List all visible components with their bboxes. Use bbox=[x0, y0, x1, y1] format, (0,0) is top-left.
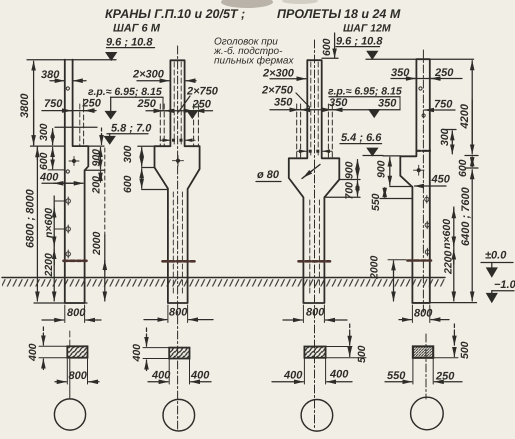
svg-text:500: 500 bbox=[459, 341, 471, 359]
dim 750 / 250 K1 bbox=[42, 98, 102, 111]
dim 380 K1 top bbox=[41, 69, 86, 81]
svg-text:6800 ; 8000: 6800 ; 8000 bbox=[25, 188, 37, 248]
dim 900 K1 bracket bbox=[91, 148, 103, 169]
rail top extension line 12m group to K4 bbox=[383, 155, 400, 157]
svg-text:800: 800 bbox=[306, 307, 325, 319]
svg-text:550: 550 bbox=[387, 370, 406, 382]
svg-text:2×750: 2×750 bbox=[186, 86, 219, 98]
title text bbox=[105, 7, 401, 67]
rail axes K2 dashed bbox=[160, 104, 198, 146]
dim 2x750 K3 leader bbox=[261, 85, 310, 108]
svg-text:2×300: 2×300 bbox=[262, 68, 295, 80]
small plate marks K4 upper bbox=[419, 87, 425, 117]
foundation section S1 bbox=[27, 327, 88, 370]
dim 300 K4 bbox=[439, 128, 456, 154]
dim 800 base K4 bbox=[399, 305, 449, 323]
svg-text:−1.0: −1.0 bbox=[494, 279, 515, 291]
svg-text:350: 350 bbox=[329, 97, 348, 109]
rung marks K1 shaft bbox=[55, 197, 70, 258]
ground line with hatching bbox=[2, 278, 445, 287]
dim 6400;7600 K4 bbox=[460, 170, 472, 301]
svg-text:250: 250 bbox=[192, 99, 212, 111]
svg-text:400: 400 bbox=[190, 370, 210, 382]
svg-text:400: 400 bbox=[283, 370, 303, 382]
dim 6800;8000 K1 bbox=[25, 147, 38, 301]
svg-text:г.р.≈ 6.95; 8.15: г.р.≈ 6.95; 8.15 bbox=[328, 86, 402, 98]
svg-text:800: 800 bbox=[67, 307, 86, 319]
svg-text:350: 350 bbox=[378, 98, 397, 110]
node cross K4 bbox=[414, 165, 425, 175]
axis centerline K3 bbox=[314, 40, 316, 430]
dim 2200 K4 bbox=[443, 249, 455, 302]
svg-text:5.8 ; 7.0: 5.8 ; 7.0 bbox=[111, 123, 152, 135]
pile circle S2 bbox=[163, 399, 195, 431]
svg-text:300: 300 bbox=[38, 123, 50, 141]
svg-text:6400 ; 7600: 6400 ; 7600 bbox=[460, 186, 472, 246]
pile circle S3 bbox=[301, 400, 333, 432]
dim 4200 K4 bbox=[459, 61, 472, 154]
dim 600 arrow at K3 top bbox=[321, 33, 338, 58]
svg-text:2200: 2200 bbox=[443, 250, 455, 275]
elevation mark 9.6 right bbox=[336, 47, 380, 59]
axis centerline K2 bbox=[177, 46, 179, 430]
dim 800 base K1 bbox=[42, 305, 101, 323]
dim 900 K3 bbox=[339, 160, 360, 180]
svg-text:380: 380 bbox=[41, 69, 60, 81]
foundation section S2 bbox=[131, 328, 190, 371]
dim 700 K3 bbox=[324, 181, 360, 200]
small plate marks K1 bbox=[66, 87, 69, 173]
dim 2x750 K2 leader bbox=[179, 86, 219, 113]
dim n x 600 K4 bbox=[441, 207, 454, 249]
elevation GR 6.95 right triangle near K2 bbox=[187, 111, 197, 118]
svg-text:750: 750 bbox=[44, 98, 63, 110]
svg-text:800: 800 bbox=[414, 308, 433, 320]
crane beam anchors K2 head bbox=[160, 139, 195, 142]
svg-text:500: 500 bbox=[356, 345, 368, 363]
column K4 outline (right edge column, 12m) bbox=[400, 59, 430, 303]
svg-text:4200: 4200 bbox=[459, 103, 471, 129]
dim 800 base K2 bbox=[144, 305, 213, 323]
svg-text:9.6 ; 10.8: 9.6 ; 10.8 bbox=[106, 37, 153, 49]
svg-text:г.р.≈ 6.95; 8.15: г.р.≈ 6.95; 8.15 bbox=[88, 86, 162, 98]
rail axes K3 dashed bbox=[297, 104, 333, 158]
dim 300 K2 bbox=[122, 145, 155, 166]
dim 600 K2 bbox=[122, 168, 168, 194]
dim 2200 K1 bbox=[43, 248, 55, 301]
dim 550 K4 bbox=[370, 188, 412, 211]
baseline under K4 extended right bbox=[412, 302, 477, 304]
svg-text:3800: 3800 bbox=[19, 93, 31, 118]
svg-text:400: 400 bbox=[329, 369, 349, 381]
dim 200 K1 chamfer bbox=[91, 172, 103, 195]
inner joint lines K2 shaft bbox=[173, 192, 182, 296]
inner joint lines K3 head bbox=[311, 62, 318, 156]
pile circle S4 bbox=[411, 397, 444, 430]
svg-text:n×600: n×600 bbox=[441, 219, 453, 249]
anchor dashes K2 bbox=[163, 260, 195, 263]
svg-text:ø 80: ø 80 bbox=[257, 169, 280, 181]
svg-text:350: 350 bbox=[274, 97, 293, 109]
dim 2x300 K3 bbox=[262, 68, 306, 80]
svg-text:750: 750 bbox=[434, 99, 453, 111]
dim 600 K1 bbox=[38, 148, 53, 171]
column K3 outline (middle column, 12m) bbox=[289, 60, 340, 303]
dim 400/400 S3 bbox=[272, 359, 352, 385]
column K1 outline (left edge column, 6m) bbox=[65, 60, 89, 303]
svg-text:ПРОЛЕТЫ: ПРОЛЕТЫ bbox=[277, 7, 341, 21]
node cross K2 bbox=[173, 156, 184, 167]
dim 2000 K3 right bbox=[369, 255, 407, 301]
top line K1 extended bbox=[27, 59, 116, 61]
svg-text:18 и 24 М: 18 и 24 М bbox=[344, 7, 401, 21]
foundation section S4 bbox=[413, 324, 471, 359]
crane beam top line K1 with extension bbox=[31, 145, 65, 147]
svg-text:250: 250 bbox=[137, 98, 157, 110]
svg-text:ШАГ 12М: ШАГ 12М bbox=[343, 23, 391, 35]
dim 900 K4 bbox=[376, 157, 413, 186]
dim 800 base K3 bbox=[283, 305, 347, 323]
dim 600 K4 bbox=[457, 156, 478, 178]
upper rail line K1 bbox=[55, 126, 97, 128]
pile circle S1 bbox=[54, 331, 85, 430]
dim 550/250 S4 bbox=[385, 359, 462, 385]
elevation +-0.0 bbox=[481, 250, 513, 277]
svg-text:2×750: 2×750 bbox=[261, 85, 294, 97]
bracket extension lines K1 right bbox=[85, 146, 104, 170]
dim 400 K1 bbox=[39, 172, 83, 184]
elevation 5.4;6.6: underline and triangle bbox=[340, 132, 383, 156]
svg-text:КРАНЫ Г.П.10 и 20/5Т ;: КРАНЫ Г.П.10 и 20/5Т ; bbox=[105, 7, 245, 21]
hole d80 K3 bbox=[256, 165, 320, 182]
svg-text:300: 300 bbox=[439, 128, 451, 146]
dim 2x300 K2 bbox=[132, 69, 196, 81]
top line K4 extended bbox=[366, 58, 474, 60]
dim n x 600 K1 bbox=[43, 196, 55, 248]
dim 400/400 S2 bbox=[148, 359, 211, 385]
svg-text:600: 600 bbox=[321, 38, 333, 56]
dim 350/250 K4 top bbox=[391, 67, 462, 79]
svg-text:2×300: 2×300 bbox=[132, 69, 165, 81]
svg-text:ШАГ 6 М: ШАГ 6 М bbox=[113, 23, 161, 35]
svg-text:400: 400 bbox=[131, 344, 143, 363]
elevation -1.0 bbox=[487, 279, 515, 302]
elevation GR 6.95 left: underline, elbow, triangle bbox=[88, 86, 163, 119]
svg-text:400: 400 bbox=[39, 172, 59, 184]
crane rail axis K1 dashed bbox=[83, 99, 85, 146]
node cross K1 bbox=[69, 157, 79, 166]
dim 450 K4 bbox=[415, 174, 451, 187]
dim 300 K1 bbox=[38, 123, 53, 144]
inner joint lines K3 shaft bbox=[310, 200, 320, 296]
small plate marks K4 bbox=[425, 196, 430, 256]
dim 800 S1 bbox=[55, 359, 99, 384]
svg-text:350: 350 bbox=[391, 67, 410, 79]
column K2 outline (middle column, 6m) bbox=[155, 60, 200, 303]
svg-text:550: 550 bbox=[370, 193, 382, 211]
elevation GR 6.95/8.15 right group: underline and triangle bbox=[328, 86, 402, 118]
svg-text:800: 800 bbox=[69, 370, 88, 382]
svg-text:400: 400 bbox=[27, 343, 39, 362]
svg-text:450: 450 bbox=[431, 174, 451, 186]
svg-text:300: 300 bbox=[122, 145, 134, 163]
svg-text:250: 250 bbox=[435, 371, 455, 383]
elevation mark 9.6 left: underline and triangle bbox=[106, 48, 154, 60]
crane beam anchors K3 head bbox=[297, 150, 332, 153]
svg-text:2000: 2000 bbox=[369, 255, 381, 280]
svg-text:900: 900 bbox=[376, 160, 388, 178]
dim 250/250 K2 bbox=[137, 98, 213, 111]
svg-text:±0.0: ±0.0 bbox=[485, 250, 507, 262]
svg-text:2200: 2200 bbox=[43, 253, 55, 278]
elevation 5.8;7.0: underline and triangle bbox=[102, 123, 153, 145]
anchor dashes K4 head bbox=[417, 150, 431, 152]
anchor dashes K1 at -2.2 bbox=[64, 259, 87, 262]
svg-text:пильных фермах: пильных фермах bbox=[214, 56, 294, 67]
dim 750 K4 bbox=[425, 99, 455, 111]
svg-text:800: 800 bbox=[169, 307, 188, 319]
svg-text:9.6 ; 10.8: 9.6 ; 10.8 bbox=[336, 36, 383, 48]
anchor dashes K4 bbox=[408, 259, 432, 262]
svg-text:n×600: n×600 bbox=[43, 208, 55, 238]
dim 350/350/350 K3 bbox=[270, 97, 400, 110]
svg-text:600: 600 bbox=[122, 175, 134, 193]
foundation section S3 bbox=[304, 324, 368, 363]
svg-text:250: 250 bbox=[82, 98, 102, 110]
dim 2000 K1 right bbox=[91, 148, 105, 301]
svg-text:400: 400 bbox=[151, 370, 171, 382]
svg-text:600: 600 bbox=[38, 152, 50, 170]
axis centerline K4 bbox=[422, 50, 424, 312]
dim 3800 K1 bbox=[19, 61, 34, 145]
baseline under K1 bbox=[34, 302, 87, 304]
svg-text:900: 900 bbox=[344, 161, 356, 179]
svg-text:250: 250 bbox=[434, 67, 454, 79]
svg-text:2000: 2000 bbox=[91, 231, 103, 256]
inner joint lines K2 head bbox=[174, 62, 181, 144]
anchor dashes K3 bbox=[299, 260, 331, 263]
svg-text:5.4 ; 6.6: 5.4 ; 6.6 bbox=[341, 132, 382, 144]
